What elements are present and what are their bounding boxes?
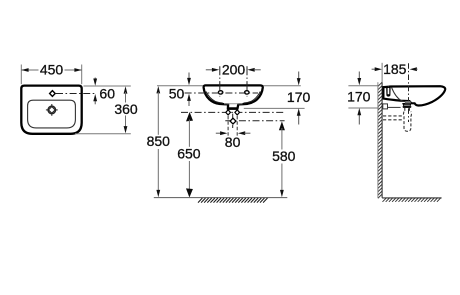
hole centre line right vertical: [246, 66, 248, 96]
drain symbol inner diamond: [49, 107, 55, 113]
hanger slot white opening: [387, 88, 389, 94]
svg-text:185: 185: [383, 61, 407, 77]
locknut light band lower: [405, 102, 411, 104]
waste pipe to wall dashed upper: [383, 115, 404, 117]
floor hatching: [198, 198, 268, 203]
svg-text:360: 360: [114, 101, 138, 117]
locknut light band upper: [405, 101, 410, 103]
tap hole right front: [245, 91, 249, 94]
faucet hole centre line: [56, 93, 97, 95]
dimension 450 line: [21, 69, 38, 71]
svg-text:850: 850: [147, 133, 171, 149]
waste pipe to wall dashed lower: [383, 119, 404, 121]
waste locknut side view: [405, 101, 411, 103]
dimension 850 line: [156, 86, 160, 93]
funnel light band: [404, 104, 410, 106]
trap bottle dashed: [403, 112, 411, 132]
extension line bottom edge (for 360): [75, 133, 131, 135]
rim extension line right view: [348, 85, 378, 87]
dimension 60 arrow top: [94, 78, 96, 81]
fixing hole diamond left: [226, 110, 231, 115]
tap hole left front: [218, 91, 222, 94]
dimension 170 arrow top (middle view): [298, 72, 300, 80]
dimension 80 arrow left: [216, 132, 221, 134]
dimension 50 arrow bottom: [188, 100, 190, 107]
dimension 185 arrow left: [372, 68, 376, 70]
outlet flange bottom bar: [227, 107, 238, 109]
dimension 360 line upper: [124, 86, 128, 93]
drain diamond symbol: [230, 118, 236, 124]
dimension 170 arrow bottom (middle view): [298, 115, 300, 125]
fixing line: [388, 106, 401, 108]
hole level centre line: [185, 92, 258, 94]
svg-text:170: 170: [287, 89, 311, 105]
fixing hole diamond right: [235, 110, 240, 115]
dimension 360 line lower: [125, 116, 127, 128]
extension line top edge (for 60/360): [84, 85, 131, 87]
drain symbol circle: [48, 106, 56, 114]
floor hatching right view: [383, 198, 442, 202]
floor line right view: [382, 197, 442, 199]
dimension 580 line: [279, 121, 285, 130]
80 extension dashed right: [236, 116, 238, 137]
inner bowl line side view: [392, 88, 411, 102]
svg-text:650: 650: [177, 146, 201, 162]
dimension 200 arrow left: [206, 69, 213, 71]
wall face line: [381, 82, 383, 198]
dimension 450 arrow right: [74, 68, 81, 72]
dimension 200 arrow right: [247, 68, 254, 72]
170 extension line bottom (flange level): [244, 107, 305, 109]
outlet top thin line: [224, 103, 243, 105]
floor line: [154, 197, 287, 199]
svg-text:50: 50: [169, 85, 185, 101]
svg-text:450: 450: [40, 62, 64, 78]
drain centre line horizontal: [225, 120, 284, 122]
dimension 50 arrow top: [188, 73, 190, 80]
waste funnel side view: [403, 103, 412, 107]
185 extension line (wall face): [381, 63, 383, 82]
svg-text:80: 80: [225, 134, 241, 150]
rim level extension line left: [157, 85, 204, 87]
hole centre line left vertical: [219, 66, 221, 96]
dimension 185 arrow right: [410, 67, 417, 71]
80 extension dashed left: [227, 116, 229, 137]
extension line left of 450: [20, 65, 22, 85]
fixing holes centre line: [181, 111, 285, 113]
dimension 60 arrow bottom: [94, 100, 96, 104]
fixing bracket: [383, 104, 388, 109]
inner bowl curve left: [206, 92, 223, 104]
dimension 650 line: [186, 112, 193, 121]
drain symbol crosshair: [51, 104, 53, 116]
basin outline top view: [21, 86, 81, 134]
faucet hole symbol: [50, 91, 56, 97]
wall back line: [377, 82, 379, 198]
dimension 450 arrow left: [21, 68, 28, 72]
trap tailpipe dashed: [404, 108, 406, 112]
svg-text:580: 580: [272, 148, 296, 164]
dimension 170 arrow top (right view): [358, 72, 360, 80]
svg-text:170: 170: [347, 89, 371, 105]
basin outline front view: [204, 85, 263, 108]
svg-text:60: 60: [99, 85, 115, 101]
wall hatching: [378, 82, 382, 198]
dimension 80 arrow right: [238, 131, 245, 135]
rim level extension line right: [263, 85, 301, 87]
svg-text:200: 200: [222, 61, 246, 77]
drain centre line vertical: [232, 114, 234, 128]
drain centre line vertical (side view): [408, 63, 410, 122]
flange level extension line right view: [348, 107, 379, 109]
basin outline side view: [383, 86, 445, 105]
extension line right of 450: [81, 65, 83, 85]
inner bowl curve right: [244, 92, 261, 104]
dimension 170 arrow bottom (right view): [358, 114, 360, 124]
inner bowl top view: [28, 100, 76, 128]
